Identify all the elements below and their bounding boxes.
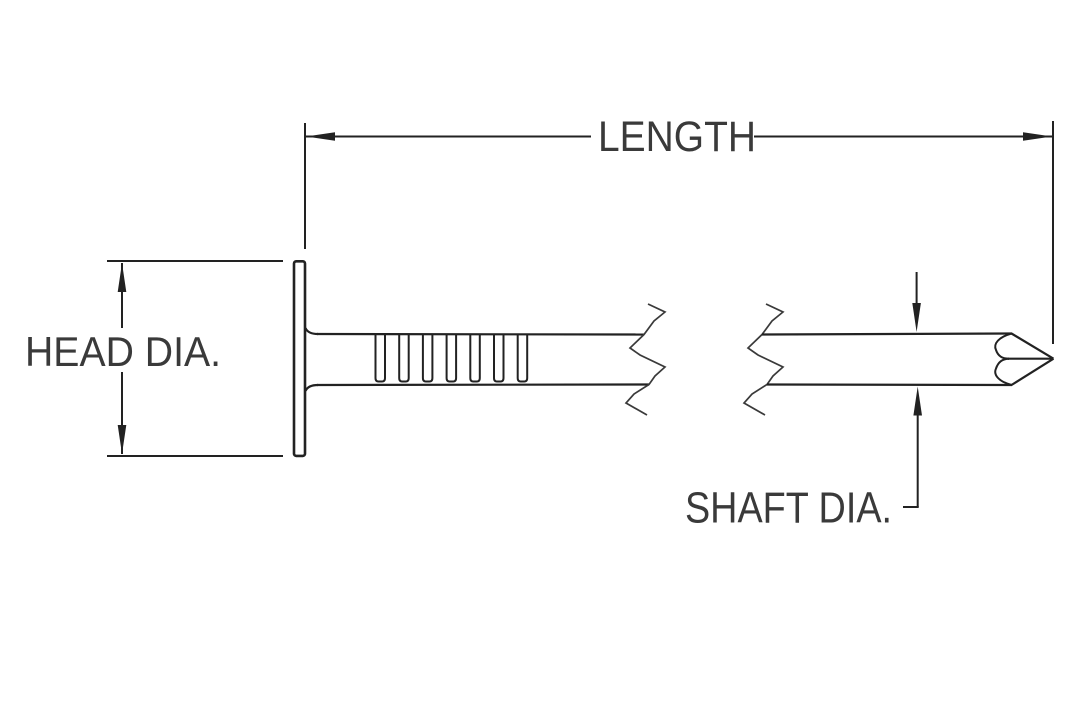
nail point lower facet curve — [995, 359, 1011, 385]
LENGTH dimension: left extension line — [304, 123, 306, 249]
HEAD DIA. up arrowhead — [118, 263, 127, 292]
shaft bottom line, left segment — [317, 383, 649, 386]
annular ring 2 — [399, 335, 409, 382]
LENGTH left arrowhead — [306, 132, 335, 141]
SHAFT DIA. upper leader line — [916, 272, 918, 305]
annular ring 5 — [470, 335, 480, 382]
annular ring 3 — [423, 335, 433, 382]
svg-text:LENGTH: LENGTH — [598, 114, 756, 161]
nail point upper facet curve — [995, 334, 1011, 359]
LENGTH dimension line left segment — [306, 136, 591, 138]
svg-text:HEAD DIA.: HEAD DIA. — [25, 328, 221, 375]
right break zigzag — [744, 304, 783, 415]
HEAD DIA. vertical dimension line upper part — [121, 263, 123, 328]
nail point center ridge — [1008, 358, 1053, 360]
HEAD DIA. down arrowhead — [118, 425, 127, 454]
shaft bottom fillet at head — [306, 385, 319, 391]
LENGTH right arrowhead — [1023, 132, 1052, 141]
nail head (flat head, side view) — [294, 261, 305, 456]
shaft top line, right segment — [762, 334, 1012, 335]
svg-text:SHAFT DIA.: SHAFT DIA. — [685, 485, 892, 533]
HEAD DIA. vertical dimension line lower part — [121, 372, 123, 454]
annular ring 6 — [494, 335, 504, 382]
SHAFT DIA. lower arrowhead (up) — [913, 387, 922, 416]
shaft top fillet at head — [306, 328, 319, 334]
SHAFT DIA. lower leader vertical line — [917, 414, 919, 507]
nail point top chamfer — [1012, 334, 1054, 359]
nail point bottom chamfer — [1012, 359, 1054, 385]
HEAD DIA. bottom extension line — [107, 455, 283, 457]
HEAD DIA. top extension line — [107, 260, 283, 262]
annular ring 1 — [376, 335, 386, 382]
annular ring 7 — [518, 335, 528, 382]
left break zigzag — [626, 304, 665, 415]
shaft bottom line, right segment — [767, 383, 1012, 386]
LENGTH dimension: right extension line — [1052, 121, 1054, 344]
annular ring 4 — [447, 335, 457, 382]
LENGTH dimension line right segment — [754, 136, 1052, 138]
SHAFT DIA. leader horizontal jog — [903, 506, 919, 508]
SHAFT DIA. upper arrowhead (down) — [912, 303, 921, 332]
shaft top line, left segment — [317, 333, 644, 336]
